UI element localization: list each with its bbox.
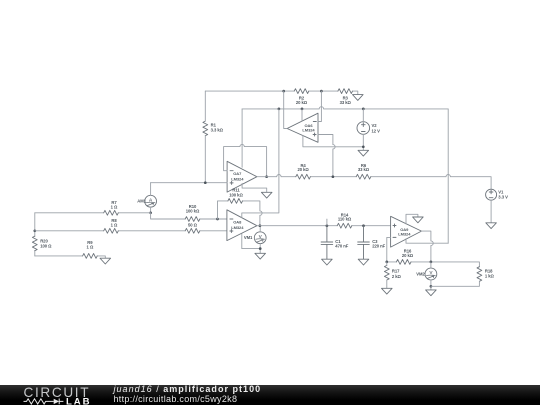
node C3 tap — [362, 224, 365, 227]
resistor R12 50ohm — [185, 222, 200, 233]
node C1 tap — [326, 224, 329, 227]
resistor R6 — [356, 163, 371, 179]
wire OA7 V- to ground — [242, 184, 267, 193]
capacitor C3 — [358, 226, 386, 260]
wire R7 line y=212.4 — [35, 212, 151, 214]
wire OA7 V+ stub down x=242.1 — [241, 109, 243, 167]
wire OA9 V- to ground (top) — [406, 214, 418, 224]
node rail-OA6 V+ — [301, 108, 304, 111]
ground below VM1 — [255, 253, 266, 259]
svg-text:33 kΩ: 33 kΩ — [358, 167, 370, 172]
resistor R11 — [228, 187, 244, 203]
voltage source V2 — [357, 122, 380, 135]
ground below C1 — [322, 259, 333, 265]
node AM1 bottom junction — [149, 211, 152, 214]
wire VM2 bottom lead — [430, 280, 432, 290]
wire output node line y=261.9 — [387, 262, 480, 267]
footer credits text — [114, 385, 262, 404]
ground below V1 — [486, 223, 497, 229]
resistor R20 — [32, 236, 52, 251]
wire OA6 V- to V2 ground node — [303, 136, 363, 147]
wire OA9 output drop (hop at y=243.2) — [422, 231, 434, 262]
node R4-R6 junction (OA6 plus tap) — [332, 175, 335, 178]
svg-text:1 Ω: 1 Ω — [111, 222, 118, 227]
node A (OA6 output joins top line) — [282, 90, 285, 93]
wire OA8 output line y=225.7 (to OA9 plus) — [257, 225, 391, 227]
ground after R9 — [100, 258, 111, 264]
wire V+ rail y=109 (OA7 V+ to right rail, hop at x=321.4) — [242, 107, 448, 109]
node VM1 bottom / OA8 V- — [259, 247, 262, 250]
wire VM2 top lead — [430, 262, 432, 268]
voltage source V1 — [486, 189, 508, 200]
resistor R2 — [294, 89, 309, 105]
svg-text:OA7: OA7 — [233, 171, 242, 176]
resistor R17 — [384, 265, 401, 280]
wire OA9 minus feedback drop — [387, 237, 391, 262]
op-amp OA6 (faces left) — [287, 113, 318, 142]
wire OA6 minus input up to R2/R3 node — [318, 91, 321, 121]
ground for R3 — [353, 95, 364, 101]
capacitor C1 — [321, 226, 349, 260]
op-amp OA8 — [227, 210, 257, 241]
svg-text:3.3 kΩ: 3.3 kΩ — [211, 128, 224, 133]
svg-text:100 kΩ: 100 kΩ — [186, 208, 200, 213]
ground below R17 — [382, 288, 393, 294]
svg-text:LM324: LM324 — [398, 232, 411, 237]
ammeter AM1 — [137, 195, 156, 207]
node V2 bottom / OA6 V- — [362, 145, 365, 148]
op-amp OA7 — [227, 161, 257, 192]
svg-text:20 kΩ: 20 kΩ — [297, 167, 309, 172]
wire R18 bottom to VM2 bottom — [431, 281, 480, 286]
wire OA7 output line y=176.7 (to V1, hops at x=278.9 and x=448.2) — [257, 174, 491, 189]
wire right supply rail x=448.2 (down to OA9 V+) — [447, 109, 449, 243]
svg-text:VM1: VM1 — [244, 235, 253, 240]
svg-text:R18: R18 — [485, 268, 493, 273]
wire top line (R1 top to R2/R3/ground net, y=91) — [205, 91, 357, 95]
resistor R18 — [477, 267, 495, 282]
ground below VM2 — [426, 290, 437, 296]
svg-text:AM1: AM1 — [137, 199, 146, 204]
resistor R9 — [83, 240, 98, 258]
wire R8 line y=230.8 (to OA8 plus) — [35, 230, 227, 232]
svg-text:LM324: LM324 — [231, 225, 244, 230]
wire R11 feedback loop (hop at y=213.1) — [218, 201, 263, 226]
svg-text:470 nF: 470 nF — [335, 244, 348, 249]
resistor R8 — [104, 218, 119, 233]
wire VM1 top lead — [259, 226, 261, 232]
svg-text:LM324: LM324 — [302, 127, 315, 132]
node rail-V2 top — [362, 108, 365, 111]
svg-text:3.3 V: 3.3 V — [498, 195, 508, 200]
wire AM1 bottom lead — [150, 207, 152, 213]
wire AM1 top lead to OA7 plus line — [150, 183, 152, 196]
resistor R7 — [104, 200, 119, 215]
ground below C3 — [358, 259, 369, 265]
node R8 tap on left column — [33, 229, 36, 232]
svg-text:LM324: LM324 — [231, 176, 244, 181]
ground for OA7 V- — [261, 192, 272, 198]
svg-text:VM2: VM2 — [416, 272, 425, 277]
svg-text:V2: V2 — [372, 123, 378, 128]
wire OA6 V+ stub — [301, 109, 303, 121]
svg-text:100 Ω: 100 Ω — [40, 243, 52, 248]
voltmeter VM1 — [244, 232, 266, 244]
wire VM1 bottom lead — [259, 244, 261, 254]
node OA8 output — [259, 224, 262, 227]
node R1 bottom on plus line — [204, 181, 207, 184]
svg-text:20 kΩ: 20 kΩ — [296, 100, 308, 105]
CircuitLab logo — [23, 386, 103, 412]
wire R1 leads — [204, 91, 206, 183]
ground below V2 — [358, 150, 369, 156]
resistor R14 — [337, 212, 352, 228]
wire OA8 V+ to rail (over R11 drop) — [242, 109, 279, 218]
svg-text:1 Ω: 1 Ω — [111, 204, 118, 209]
node B (R2-R3 junction) — [320, 90, 323, 93]
resistor R16 — [396, 248, 413, 264]
resistor R4 — [296, 163, 311, 179]
svg-text:1 kΩ: 1 kΩ — [485, 274, 495, 279]
wire OA7 feedback (output to minus input, hop at x=242.1) — [224, 144, 267, 176]
wire C1 stub above line — [326, 219, 328, 226]
wire V1 bottom lead — [490, 200, 492, 223]
svg-text:220 nF: 220 nF — [372, 244, 385, 249]
wire OA6 plus input down to R4/R6 node (hop at y=146.8) — [318, 135, 335, 177]
node R10-R11 junction — [216, 218, 219, 221]
wire V2 bottom lead — [362, 134, 364, 150]
node VM2 bottom — [430, 285, 433, 288]
node rail-OA8V+ riser — [278, 108, 281, 111]
voltmeter VM2 — [416, 268, 437, 280]
ground for OA9 V- — [413, 217, 424, 223]
svg-text:50 Ω: 50 Ω — [188, 222, 198, 227]
svg-text:12 V: 12 V — [372, 129, 381, 134]
wire OA7 plus input line from AM1 — [151, 182, 228, 184]
svg-text:110 kΩ: 110 kΩ — [338, 217, 352, 222]
node R16-R17 junction — [385, 261, 388, 264]
node OA9 output node — [430, 261, 433, 264]
svg-text:OA8: OA8 — [233, 219, 242, 224]
wire OA9 V+ to right rail (bottom) — [406, 239, 448, 244]
svg-text:LAB: LAB — [66, 396, 91, 406]
svg-text:2 kΩ: 2 kΩ — [392, 274, 402, 279]
op-amp OA9 (flipped vertically) — [391, 216, 422, 247]
wire V2 top lead — [362, 109, 364, 122]
wire R10 line y=219 (AM1 to OA8 minus) — [151, 213, 227, 219]
wire left column x=30.4 — [34, 213, 36, 256]
wire R17 leads — [386, 262, 388, 288]
svg-text:R17: R17 — [392, 269, 400, 274]
resistor R10 — [185, 204, 200, 221]
resistor R1 — [203, 121, 224, 136]
svg-text:100 kΩ: 100 kΩ — [229, 192, 243, 197]
wire OA6 output to top line — [284, 91, 287, 128]
resistor R3 — [338, 89, 353, 105]
svg-text:R1: R1 — [211, 122, 217, 127]
svg-text:1 Ω: 1 Ω — [87, 244, 94, 249]
svg-text:33 kΩ: 33 kΩ — [340, 100, 352, 105]
svg-text:20 kΩ: 20 kΩ — [402, 253, 414, 258]
wire OA8 V- to ground — [242, 234, 260, 249]
node OA7 output-feedback — [265, 175, 268, 178]
wire R9 line y=256.6 — [35, 256, 106, 258]
